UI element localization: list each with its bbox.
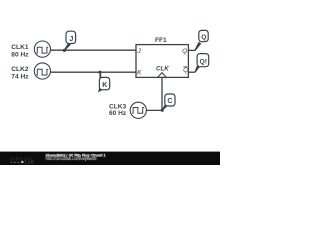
watermark bar bbox=[0, 152, 220, 165]
svg-text:CLK1: CLK1 bbox=[11, 44, 29, 51]
probe J bbox=[64, 31, 76, 51]
svg-text:74 Hz: 74 Hz bbox=[11, 73, 29, 80]
junction dot node K bbox=[98, 71, 101, 74]
svg-text:J: J bbox=[69, 34, 73, 43]
probe Q bbox=[194, 30, 208, 51]
junction dot node J bbox=[63, 49, 66, 52]
wire Q stub bbox=[188, 49, 195, 51]
svg-text:Q: Q bbox=[183, 67, 189, 74]
svg-text:Q!: Q! bbox=[200, 59, 208, 66]
svg-text:60 Hz: 60 Hz bbox=[109, 110, 127, 117]
svg-text:FF1: FF1 bbox=[155, 37, 167, 44]
svg-text:K: K bbox=[102, 82, 107, 89]
svg-text:Q: Q bbox=[201, 34, 206, 41]
svg-text:CLK: CLK bbox=[156, 65, 169, 72]
probe Q! bbox=[194, 54, 208, 73]
clock source CLK1 bbox=[34, 41, 50, 57]
junction dot node C bbox=[161, 109, 164, 112]
wire CLK3 to clock pin bbox=[147, 77, 162, 110]
probe C bbox=[162, 94, 175, 111]
svg-text:LAB: LAB bbox=[25, 160, 35, 165]
flip-flop FF1 bbox=[136, 37, 189, 78]
svg-text:Q: Q bbox=[182, 48, 188, 55]
svg-text:J: J bbox=[136, 48, 141, 55]
svg-text:80 Hz: 80 Hz bbox=[11, 51, 29, 58]
wire K row bbox=[50, 71, 136, 73]
svg-text:C: C bbox=[167, 98, 172, 105]
wire Q-bar stub bbox=[188, 71, 195, 73]
svg-text:K: K bbox=[137, 69, 142, 76]
svg-text:htto://circuitlab.com/c6jww39: htto://circuitlab.com/c6jww39 bbox=[46, 156, 98, 161]
svg-text:CLK2: CLK2 bbox=[11, 66, 29, 73]
probe K bbox=[98, 72, 110, 93]
wire J row bbox=[50, 49, 136, 51]
clock source CLK2 bbox=[34, 63, 50, 79]
clock source CLK3 bbox=[130, 102, 146, 118]
